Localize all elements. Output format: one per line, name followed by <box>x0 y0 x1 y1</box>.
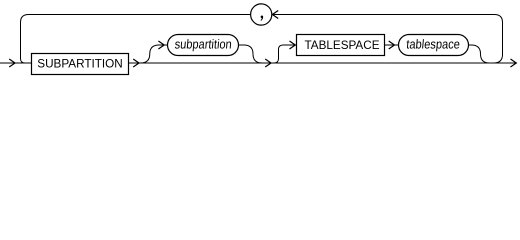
svg-text:tablespace: tablespace <box>406 37 461 52</box>
svg-text:SUBPARTITION: SUBPARTITION <box>37 57 123 71</box>
svg-text:TABLESPACE: TABLESPACE <box>305 38 380 52</box>
svg-text:subpartition: subpartition <box>174 37 232 52</box>
